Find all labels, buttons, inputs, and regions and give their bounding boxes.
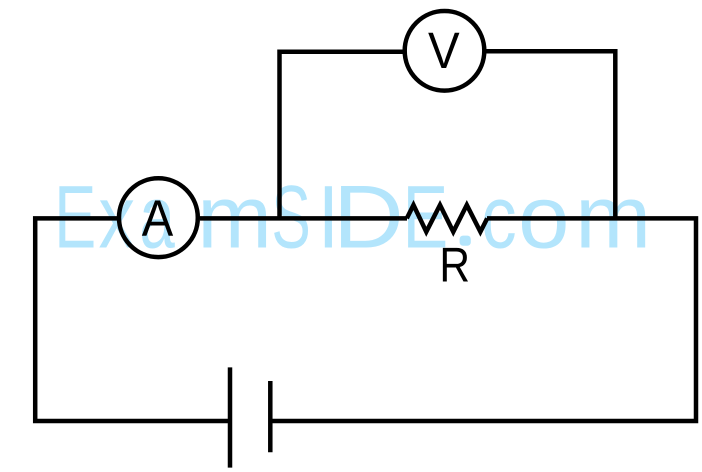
svg-text:R: R <box>439 236 470 292</box>
svg-text:V: V <box>428 22 460 79</box>
svg-text:A: A <box>142 190 174 247</box>
